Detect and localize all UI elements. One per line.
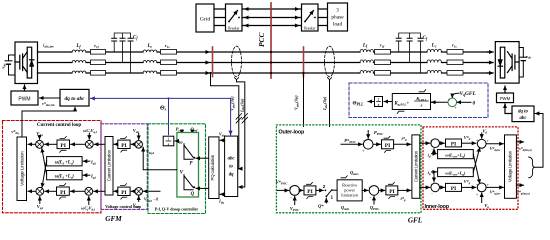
svg-text:2: 2 [323,184,326,189]
svg-text:PI: PI [60,190,66,196]
svg-text:+: + [487,138,490,143]
measurement tick (left) [212,47,214,77]
label Vd,i (top) [36,131,42,140]
svg-text:V*d: V*d [464,135,471,141]
summer SF2 (q feedforward) [476,182,490,197]
svg-text:Θs: Θs [160,106,167,112]
svg-text:PI: PI [385,143,390,149]
summer SG3 [368,185,378,200]
svg-text:Qmax: Qmax [350,170,359,176]
summer SV1 [131,141,142,149]
PI block (d-axis current) [45,137,70,153]
droop graph V-Q [180,169,209,196]
summer SI2 (q inner) [420,182,440,196]
breaker BRK2 [302,4,319,31]
svg-text:+: + [487,182,490,187]
Voltage Limitation box (GFM) [17,137,27,201]
summer SG1 [362,138,373,153]
PI block (q inner) [440,183,462,192]
label i_abc,inv [43,43,54,49]
wire PI to CL, label i*d [394,136,411,144]
theta_GFM blue wire [91,97,231,134]
svg-text:PI: PI [121,190,126,196]
wire breaker2 to load [318,9,328,26]
node PCC label [257,33,266,47]
svg-text:Current control loop: Current control loop [37,123,81,128]
reference 0 (PLL) [457,100,476,106]
svg-text:vdc: vdc [1,63,7,69]
I measurement tap (right) [329,80,331,127]
resistor r1c (right, 3x) [447,43,463,76]
svg-text:i*q: i*q [400,196,405,202]
svg-text:vdc: vdc [526,54,532,60]
svg-text:Voltage Limitation: Voltage Limitation [19,151,25,186]
dc link vdc (right) [519,48,532,78]
cross coupling diagonals [473,148,480,184]
labels Pref Qref [176,127,199,134]
resistor r1f (left, 3x) [91,43,106,75]
svg-text:Vq,i: Vq,i [37,204,43,210]
GFM current control loop (red dashed box) [3,121,102,213]
svg-text:PQ calculation: PQ calculation [210,154,215,180]
integrator 1/s (GFM) [163,136,174,146]
svg-text:V*POC: V*POC [276,180,288,186]
svg-text:s: s [167,141,170,146]
inductor Lf (left, 3x) [72,44,86,73]
dq to abc box (GFM) [60,89,89,106]
V measurement tap (left) [209,72,238,169]
label theta_PLL [353,101,375,107]
svg-text:Iabc(3φ): Iabc(3φ) [239,98,245,113]
svg-text:P*POC: P*POC [344,138,356,144]
svg-text:Current Limitation: Current Limitation [107,149,112,181]
svg-text:Kp,PLL+: Kp,PLL+ [394,102,410,107]
label Vdq,d [146,149,155,155]
switch Q mode [316,184,337,200]
label V*d, wire to SF1 [462,135,476,143]
dq to abc box (GFL) [505,104,534,122]
svg-text:VqGFL: VqGFL [460,91,477,97]
svg-text:i*d: i*d [401,136,406,142]
svg-text:PWM: PWM [500,96,511,101]
svg-text:r1c: r1c [452,43,457,49]
label Q_POC [370,196,380,211]
label GFM [105,215,122,223]
svg-text:v*abc,inv: v*abc,inv [42,101,55,107]
svg-text:QPOC: QPOC [370,205,380,211]
label V_d feedforward [482,128,488,138]
droop graph w-P [175,140,209,167]
svg-text:load: load [333,22,343,28]
svg-text:Idq: Idq [218,199,224,205]
resistor r1f (right, 3x) [375,43,391,76]
arrows into left measuring point [203,52,210,73]
PI block (q-axis current) [45,184,69,200]
wire dq-abc to PWM, label v*abc,inv [40,98,61,107]
svg-text:+: + [454,105,457,110]
summer S1 (d-axis, current loop) [28,140,43,148]
svg-text:dq: dq [229,173,234,178]
svg-text:0: 0 [473,100,476,106]
svg-text:ΘPLL: ΘPLL [353,101,365,107]
label Vd,i (voltage loop) [133,128,139,140]
svg-text:-: - [431,191,433,196]
PWM box (GFM) [11,85,38,105]
Current Limitation box (GFM) [105,137,113,196]
label wCfVd,i [81,196,95,211]
svg-text:PI: PI [307,189,312,195]
label Vq,i (bottom) [37,196,43,210]
svg-text:ω: ω [179,140,183,146]
svg-text:iabc,inv: iabc,inv [43,43,54,49]
svg-text:PI: PI [389,189,394,195]
grid box [196,4,214,32]
svg-text:V: V [180,169,184,175]
measurement tick (right) [303,47,305,77]
PWM box (GFL) [497,86,514,103]
svg-text:Voltage Limitation: Voltage Limitation [508,150,513,182]
summer SF1 (d feedforward) [476,137,490,153]
wire SF2 to VL, label V*q,inv [486,187,503,195]
V measurement tap (right) [302,72,304,127]
svg-text:Qmin: Qmin [341,205,350,211]
converter VSC2 (GFL) [495,42,519,84]
svg-text:Iabc(3φ): Iabc(3φ) [322,96,328,111]
svg-text:iq: iq [428,170,431,176]
summer S2 (d-axis) [71,140,94,148]
PI block Kp,PLL+Ki,PLL/s [392,90,430,114]
PQ calculation box [209,137,219,199]
label Qmax [350,170,359,176]
summer SV2 [131,188,142,196]
summer SG2 [289,185,300,200]
svg-text:Vdq: Vdq [219,131,225,137]
wires CL to S2/S4 [94,144,105,191]
svg-text:1: 1 [331,195,334,200]
Current Limitation box (GFL) [412,135,420,198]
PI block (d inner) [440,139,462,147]
svg-text:-: - [290,195,292,200]
svg-text:PWM: PWM [18,96,30,102]
svg-text:ωCfVd,i: ωCfVd,i [81,206,95,212]
svg-text:ωCfVq,i: ωCfVq,i [83,128,97,134]
svg-text:PCC: PCC [257,33,266,47]
resistor r1c (left, 3x) [161,43,177,75]
summer SI1 (d inner) [420,137,440,151]
svg-text:V*d,inv: V*d,inv [490,146,501,152]
I measurement tap (left) [237,80,245,187]
svg-text:to: to [229,165,233,170]
svg-text:r1f: r1f [380,43,385,49]
Voltage Limitation box (GFL) [505,135,517,198]
dc source vdc (left) [1,55,16,75]
label Iabc(3ph) right [322,96,328,111]
PCC bus line [270,3,272,78]
summer (PLL) [448,97,458,110]
wire grid to breaker1 [214,9,226,26]
label GFL [408,217,423,225]
svg-text:Inner-loop: Inner-loop [425,204,450,210]
svg-text:id: id [428,153,431,159]
label Q* [318,198,326,208]
3 phase load box [328,3,348,31]
svg-text:Lf: Lf [362,44,368,49]
svg-text:Cf: Cf [133,36,138,41]
svg-text:r1c: r1c [165,43,170,49]
svg-text:phase: phase [331,15,344,21]
label V*POC [276,180,289,191]
GFM voltage control loop (purple dashed box) [101,124,147,210]
svg-text:+: + [476,192,479,197]
GFL inner loop (red dotted box) [423,127,518,210]
capacitor bank Cf (left) [112,33,139,73]
svg-text:P: P [190,162,193,167]
svg-text:ω(Lf +Lc): ω(Lf +Lc) [55,161,75,166]
svg-text:Cf: Cf [423,36,428,41]
svg-text:Outer-loop: Outer-loop [279,129,305,135]
label P_POC [368,130,384,139]
svg-text:Breaker: Breaker [304,26,316,30]
PLL block (blue dashed) [349,83,488,118]
PI block (P outer) [373,136,394,152]
label Qmin [341,205,350,211]
svg-text:3: 3 [336,8,339,14]
abc to dq box (GFM) [225,136,238,196]
svg-text:Q*: Q* [318,204,324,209]
CT ellipse (right) [325,46,335,79]
svg-text:ω(Lf +Lc): ω(Lf +Lc) [55,174,75,179]
svg-text:Current Limitation: Current Limitation [413,150,418,182]
svg-text:P-f, Q-V droop controller: P-f, Q-V droop controller [155,206,199,211]
svg-text:s: s [420,103,423,108]
coupling block w(Lcnv+Lg) 2 [438,168,474,177]
svg-text:s: s [377,102,380,107]
breaker BRK1 [226,4,243,31]
droop controller block (w-P, V-Q graphs) [177,133,199,198]
label wCfVq,i [83,128,97,139]
PI block (q-axis voltage) [114,184,130,199]
svg-text:v*dq: v*dq [11,129,19,135]
brace outputs [529,157,535,178]
label Vabc(3ph) left [230,96,236,111]
PI block (d-axis voltage) [114,137,130,152]
svg-text:abc: abc [228,157,236,162]
output v*q(inv,a) [516,185,529,195]
svg-text:Id,i: Id,i [90,159,96,165]
svg-text:Breaker: Breaker [228,26,240,30]
summer S3 (q-axis) [28,187,44,195]
label V_POC [290,196,300,212]
label Id,i [83,159,96,165]
wire breaker1 to breaker2 across PCC [242,9,302,26]
summer S4 (q-axis) [71,187,93,195]
svg-text:v*d(inv,α): v*d(inv,α) [519,147,532,152]
label Vq GFL [452,91,476,98]
capacitor bank Cf (right) [396,33,428,73]
label v*dq [11,129,19,135]
svg-text:Grid: Grid [200,16,210,22]
converter VSC1 (GFM) [15,42,38,84]
svg-text:Vabc(3φ): Vabc(3φ) [294,95,300,110]
PI block (Q outer) [379,182,398,198]
svg-text:PI: PI [451,141,456,147]
label i_d feedback [428,149,437,159]
output v*d(inv,a) [516,142,531,152]
Reactive power limitation box [337,176,362,201]
svg-text:Qref: Qref [191,127,199,133]
CT ellipse (left) [232,46,242,79]
inductor Lf (right, 3x) [360,44,373,74]
wire Vdq [219,131,225,140]
wire RPL to SG3, label Q*POC [362,189,368,191]
svg-text:PI: PI [451,186,456,192]
label V_q feedforward [482,193,490,209]
svg-text:PPOC: PPOC [374,130,384,136]
svg-text:V*q,inv: V*q,inv [490,190,501,196]
label P*POC [341,138,362,145]
svg-text:Vq: Vq [484,203,489,209]
wire V droop output to SV1 [143,147,177,170]
svg-text:dq to abc: dq to abc [64,96,85,102]
svg-text:+: + [362,148,365,153]
svg-text:PI: PI [121,143,126,149]
svg-text:Vd: Vd [482,128,487,134]
svg-text:limitation: limitation [341,192,359,197]
three-phase bus left (converter to PCC) [38,52,272,73]
junction dots bus at PCC [270,51,272,74]
3-phase slash marks (left taps) [236,114,248,124]
inductor Lc (left, 3x) [143,44,157,73]
label Vdq,q->0 and wire [143,191,160,202]
svg-text:Q: Q [191,192,195,197]
svg-text:abc: abc [520,116,528,121]
label Iq,i [83,173,96,179]
svg-text:Lc: Lc [431,44,437,49]
junction dots grid bus at PCC [270,8,272,27]
wire SF1 to VL, label V*d,inv [486,144,503,152]
label Vq,i (voltage loop) [133,196,139,209]
svg-text:V*q: V*q [464,179,471,185]
label V*q, wire to SF2 [462,179,476,187]
svg-text:Vdq,q→0: Vdq,q→0 [144,197,159,203]
label Vabc(3ph) right [294,95,300,110]
GFL outer loop (green dotted box) [276,125,421,213]
inductor Lc (right, 3x) [427,44,442,74]
PI block (V outer) [300,182,316,198]
svg-text:Lc: Lc [146,44,152,49]
svg-text:GFM: GFM [105,215,122,223]
svg-text:Lf: Lf [75,44,81,49]
wire v*dq up to dq-abc [22,107,75,137]
svg-text:VPOC: VPOC [290,206,300,212]
svg-text:v*q(inv,α): v*q(inv,α) [517,190,530,195]
coupling block w(Lf+Lc) q [42,148,82,180]
label Iabc(3ph) left [239,98,245,113]
wire PI to CL, label i*q [398,190,411,202]
svg-text:-: - [431,147,433,152]
coupling block w(Lcnv+Lg) 1 [438,150,474,159]
node theta_s label [160,106,167,112]
label i_q feedback [428,170,437,182]
svg-text:r1f: r1f [94,43,99,49]
svg-text:PI: PI [60,143,66,149]
svg-text:-: - [370,195,372,200]
wire sum to PI (PLL) [431,101,449,103]
coupling block w(Lf+Lc) d [42,157,82,188]
svg-text:+: + [448,97,451,102]
integrator 1/s (PLL) [375,97,393,107]
wire brace up to dq-abc (GFL) [535,114,543,168]
svg-text:GFL: GFL [408,217,423,225]
three-phase bus right (PCC to converter VSC2) [271,52,493,73]
svg-text:dq to: dq to [518,110,528,115]
GFM droop controller (green dashed box) [148,124,206,214]
wire Idq [218,194,224,204]
svg-text:Iq,i: Iq,i [90,173,96,179]
